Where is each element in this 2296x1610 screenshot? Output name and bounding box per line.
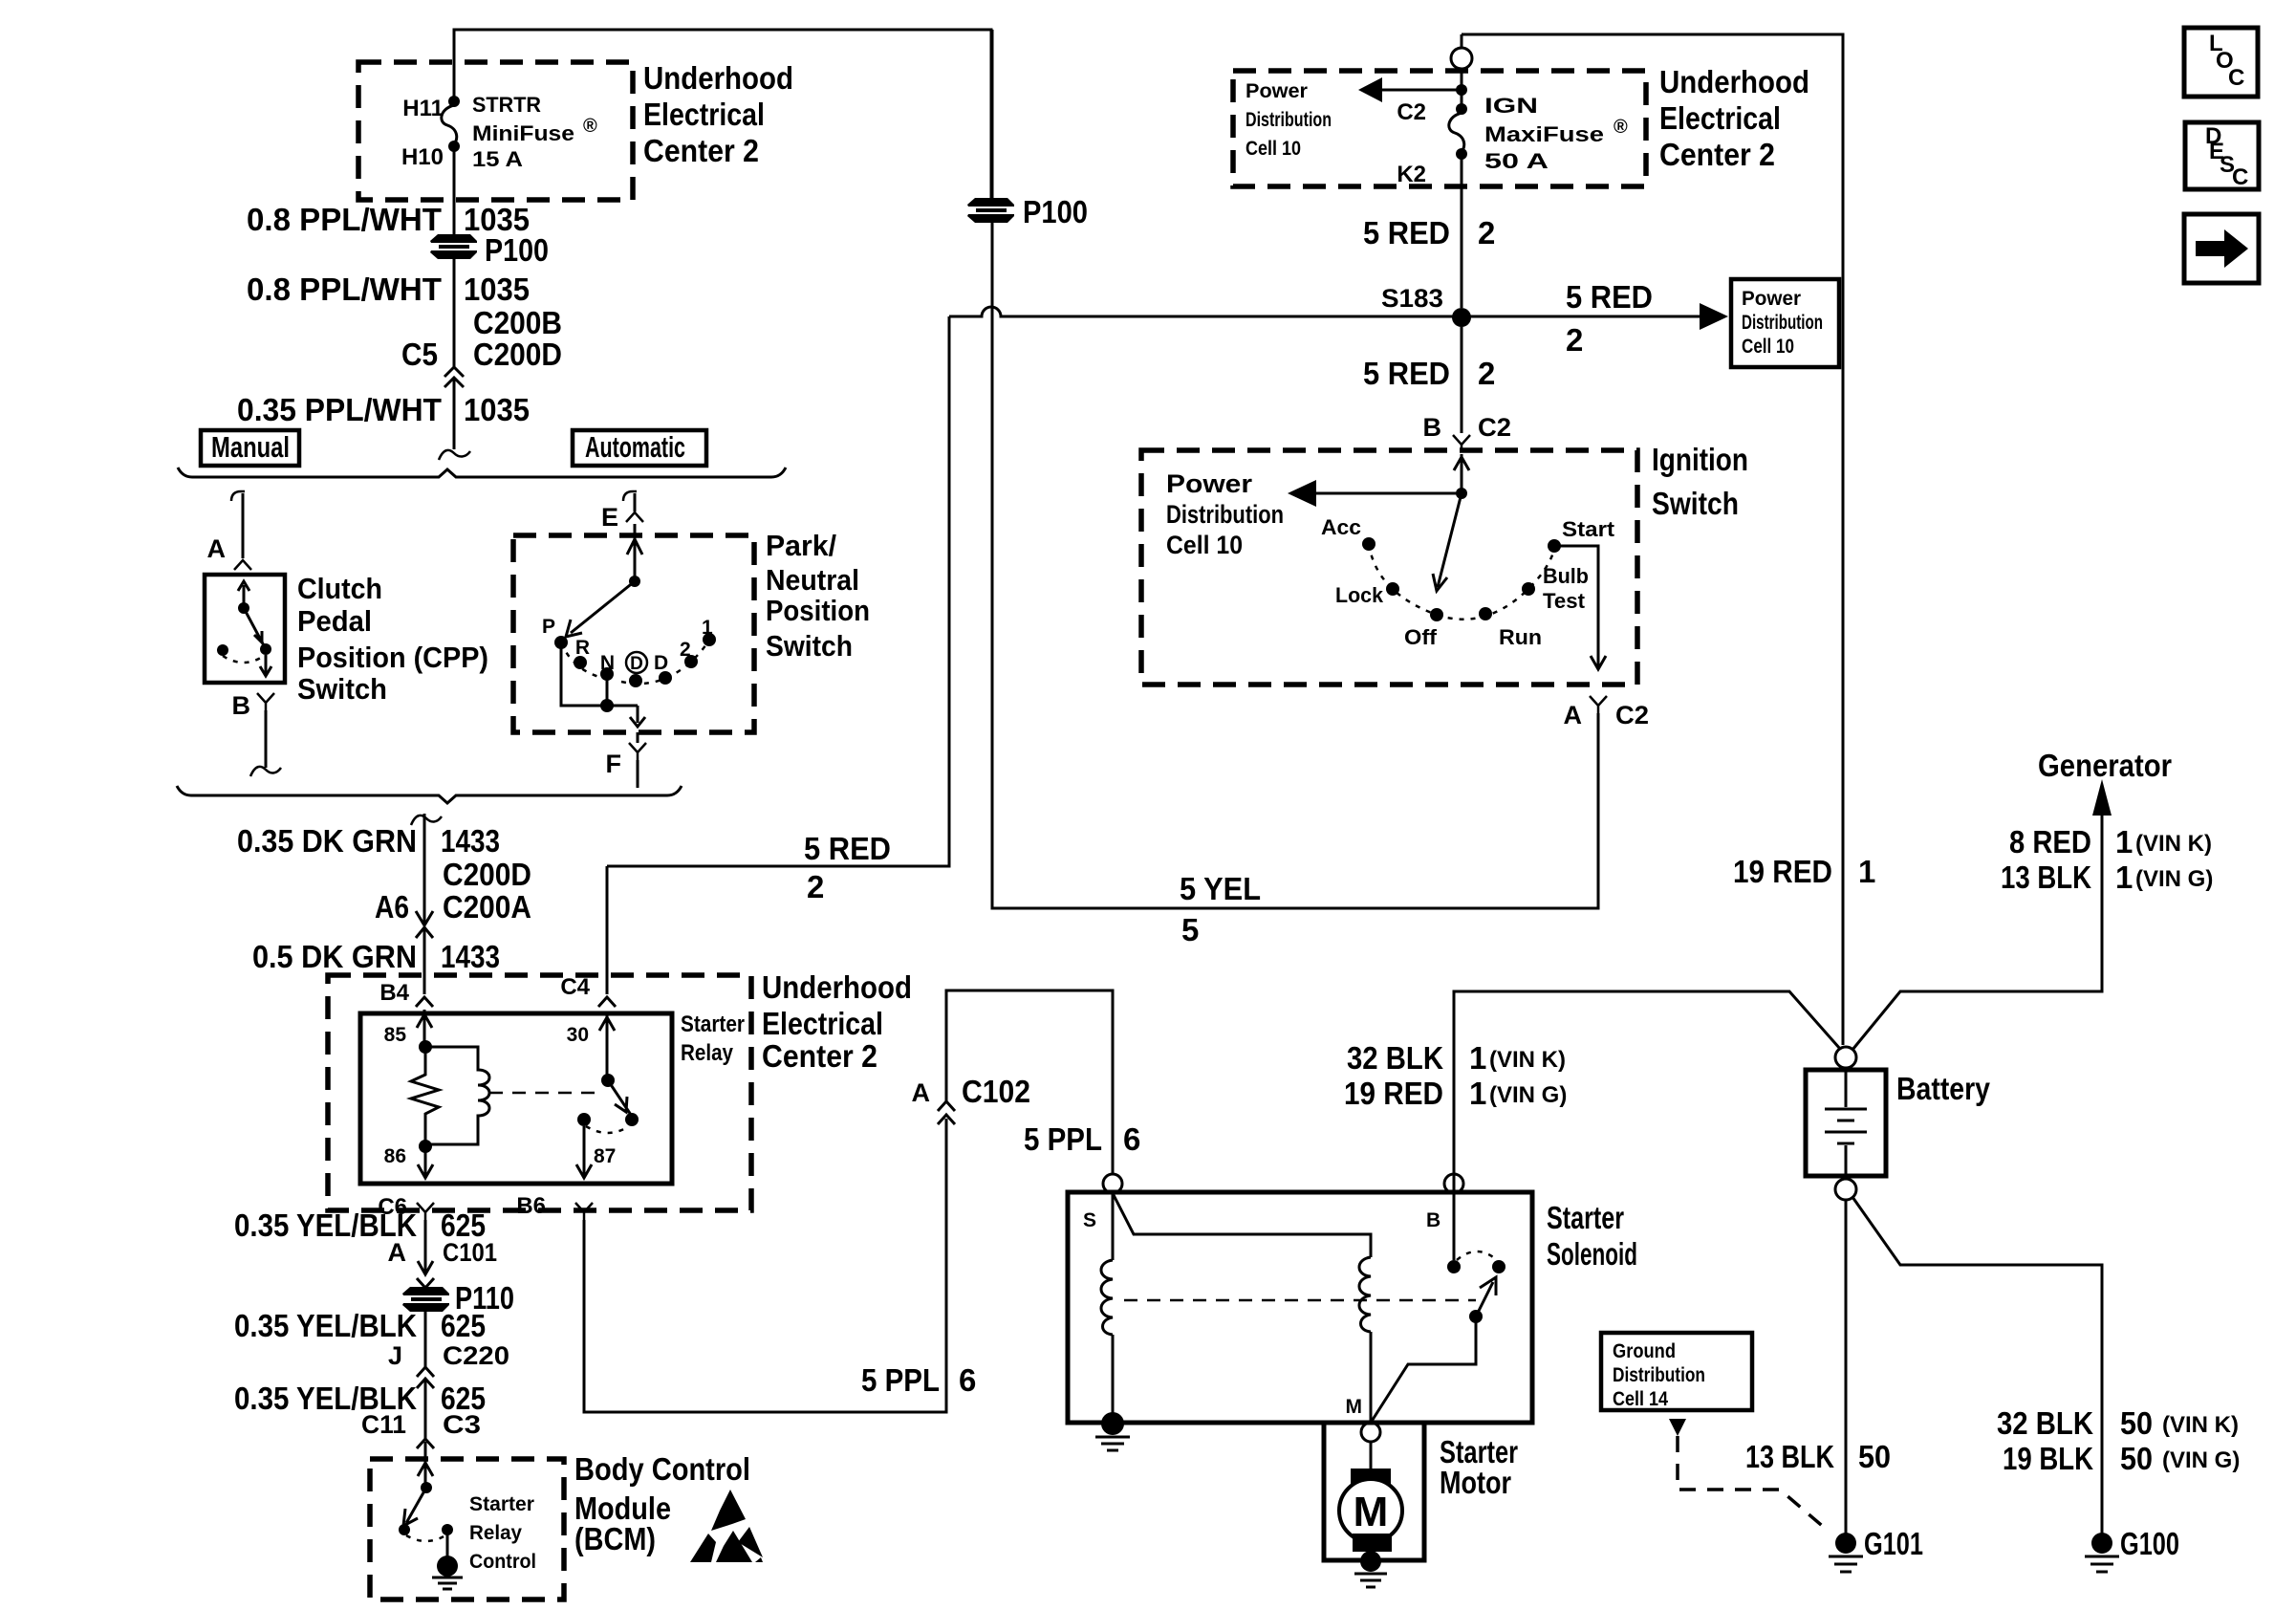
svg-text:Distribution: Distribution bbox=[1742, 312, 1823, 334]
BCM arm tip contact dot bbox=[399, 1524, 410, 1535]
relay mechanical dashed link bbox=[489, 1092, 601, 1095]
svg-text:0.35 PPL/WHT: 0.35 PPL/WHT bbox=[237, 392, 442, 427]
relay arm tip dot bbox=[625, 1113, 639, 1126]
svg-text:0.8 PPL/WHT: 0.8 PPL/WHT bbox=[247, 202, 442, 237]
wire M terminal to motor bbox=[1370, 1442, 1373, 1481]
wire B4 into relay coil bbox=[417, 1010, 432, 1045]
wire end curl above split brace bbox=[439, 450, 470, 460]
filled arrowhead pointing left bbox=[1358, 77, 1382, 102]
fuse STRTR MiniFuse 15A element bbox=[442, 105, 457, 145]
wire C6 down to C101 bbox=[417, 1220, 434, 1288]
connector caret at relay pin B4 bbox=[416, 997, 433, 1007]
wire solenoid S to pull-in winding bbox=[1113, 1193, 1371, 1257]
svg-text:32 BLK: 32 BLK bbox=[1347, 1040, 1443, 1076]
svg-text:Start: Start bbox=[1562, 517, 1615, 541]
svg-text:(VIN K): (VIN K) bbox=[1489, 1047, 1566, 1073]
svg-text:Underhood: Underhood bbox=[762, 969, 912, 1005]
solenoid hold-in coil winding bbox=[1101, 1260, 1113, 1335]
svg-text:50 A: 50 A bbox=[1484, 149, 1549, 173]
svg-text:Relay: Relay bbox=[681, 1040, 734, 1066]
wire 86 exit with down arrow bbox=[418, 1146, 433, 1178]
solenoid B terminal circle bbox=[1444, 1174, 1463, 1193]
motor ground ball bbox=[1360, 1551, 1381, 1572]
svg-text:(VIN G): (VIN G) bbox=[2162, 1447, 2240, 1473]
svg-text:Lock: Lock bbox=[1335, 583, 1384, 607]
svg-text:A6: A6 bbox=[375, 889, 409, 925]
solenoid fixed contact dot (B side) bbox=[1447, 1260, 1461, 1273]
splice open circle at top of IGN feed bbox=[1451, 48, 1472, 69]
svg-text:C5: C5 bbox=[401, 337, 438, 372]
CPP pivot dot bbox=[238, 602, 249, 614]
svg-text:F: F bbox=[606, 750, 622, 778]
ignition internal junction dot bbox=[1456, 488, 1467, 499]
pin H11 terminal dot bbox=[448, 96, 460, 107]
relay switch pivot dot (pin 30) bbox=[601, 1074, 615, 1087]
svg-text:1: 1 bbox=[702, 617, 713, 639]
wire relay B6 down, right, up to C102 bbox=[584, 1119, 946, 1412]
dashed wire ground distribution to G101 bbox=[1678, 1436, 1827, 1530]
wire PNP output exit with down arrow bbox=[630, 706, 645, 727]
arrowhead into power distribution box bbox=[1700, 303, 1728, 330]
in-line connector C3 symbol bbox=[417, 1439, 434, 1448]
ignition contact Lock dot bbox=[1386, 582, 1399, 596]
wire C3 into BCM bbox=[418, 1442, 433, 1488]
wire branch A top curl bbox=[231, 491, 245, 501]
svg-text:1433: 1433 bbox=[441, 823, 500, 859]
svg-text:86: 86 bbox=[384, 1145, 406, 1167]
svg-text:M: M bbox=[1354, 1489, 1389, 1535]
svg-text:C200D: C200D bbox=[443, 857, 531, 892]
wire S183 branch left and down to relay pin 30 bbox=[607, 316, 949, 866]
svg-text:H10: H10 bbox=[401, 144, 444, 170]
BCM ground symbol lines bbox=[432, 1577, 463, 1589]
svg-text:A: A bbox=[1564, 701, 1583, 729]
arrow to power distribution cell 10 (ignition internal) bbox=[1308, 492, 1462, 495]
svg-text:Distribution: Distribution bbox=[1166, 500, 1284, 529]
wire battery negative to ground G101 bbox=[1845, 1200, 1848, 1537]
svg-text:A: A bbox=[388, 1238, 407, 1267]
wire C200 connector down to branch end bbox=[453, 378, 456, 449]
svg-text:(VIN K): (VIN K) bbox=[2135, 831, 2212, 857]
wire C102 up and over to solenoid S terminal bbox=[946, 990, 1113, 1174]
battery box bbox=[1806, 1070, 1886, 1176]
BCM switch pivot dot bbox=[421, 1482, 432, 1493]
split brace between manual and automatic branches bbox=[178, 468, 786, 477]
svg-text:C220: C220 bbox=[443, 1341, 509, 1370]
PNP contact 1 dot bbox=[703, 633, 716, 646]
svg-text:C200D: C200D bbox=[473, 337, 562, 372]
svg-text:Distribution: Distribution bbox=[1245, 109, 1332, 131]
in-line connector C200D/C200A symbol with arrow bbox=[416, 910, 433, 938]
wire top right bus from splice circle to battery column bbox=[1462, 34, 1843, 1045]
icon box LOC bbox=[2184, 28, 2258, 97]
svg-text:®: ® bbox=[583, 116, 597, 137]
svg-text:Switch: Switch bbox=[297, 672, 387, 706]
svg-text:Starter: Starter bbox=[1547, 1200, 1624, 1235]
svg-text:Control: Control bbox=[469, 1551, 536, 1573]
relay switch movable arm bbox=[608, 1080, 631, 1115]
grommet P110 bbox=[402, 1287, 449, 1312]
solenoid contact travel dashed arc bbox=[1457, 1251, 1497, 1260]
CPP contact exit arrow down bbox=[260, 655, 271, 676]
ignition travel dashed arc bbox=[1369, 544, 1554, 620]
svg-text:K2: K2 bbox=[1397, 162, 1426, 187]
connector socket at PNP pin F bbox=[629, 743, 646, 760]
ground distribution cell 14 box bbox=[1601, 1333, 1752, 1410]
svg-text:Run: Run bbox=[1499, 625, 1542, 649]
svg-text:50: 50 bbox=[2120, 1441, 2153, 1476]
solenoid ground symbol lines bbox=[1095, 1437, 1130, 1450]
svg-text:B: B bbox=[1426, 1209, 1440, 1231]
svg-text:19 RED: 19 RED bbox=[1344, 1076, 1443, 1111]
ignition contact Acc dot bbox=[1362, 537, 1375, 551]
svg-text:30: 30 bbox=[567, 1024, 589, 1046]
wire BCM contact to internal ground bbox=[446, 1530, 449, 1558]
svg-text:13 BLK: 13 BLK bbox=[1745, 1439, 1834, 1474]
svg-text:Body Control: Body Control bbox=[574, 1451, 750, 1487]
svg-text:6: 6 bbox=[1123, 1121, 1140, 1157]
svg-text:Power: Power bbox=[1245, 80, 1308, 102]
ESD sensitive device symbol bbox=[690, 1490, 763, 1562]
svg-text:5 RED: 5 RED bbox=[1363, 215, 1450, 250]
svg-text:Pedal: Pedal bbox=[297, 604, 372, 638]
BCM contact travel dashed arc bbox=[406, 1535, 445, 1541]
svg-text:B: B bbox=[1423, 413, 1442, 442]
svg-text:5 YEL: 5 YEL bbox=[1180, 871, 1261, 906]
svg-text:(VIN K): (VIN K) bbox=[2162, 1412, 2239, 1438]
svg-text:B4: B4 bbox=[379, 980, 409, 1006]
svg-text:S: S bbox=[1083, 1209, 1096, 1231]
splice S183 junction dot bbox=[1452, 308, 1471, 327]
svg-text:32 BLK: 32 BLK bbox=[1997, 1405, 2093, 1441]
svg-text:Bulb: Bulb bbox=[1543, 564, 1589, 588]
solenoid mechanical dashed link bbox=[1124, 1299, 1476, 1302]
battery cell symbol bbox=[1825, 1068, 1867, 1176]
wire solenoid B to fixed contact bbox=[1453, 1193, 1456, 1260]
svg-text:1: 1 bbox=[1469, 1076, 1486, 1111]
svg-text:Cell 10: Cell 10 bbox=[1166, 531, 1243, 559]
svg-text:5 RED: 5 RED bbox=[1363, 356, 1450, 391]
relay contact travel dashed arc bbox=[586, 1126, 629, 1133]
solenoid second contact dot bbox=[1492, 1260, 1505, 1273]
CPP switch movable arm bbox=[244, 608, 266, 649]
clutch pedal position switch box bbox=[205, 575, 285, 683]
merge brace joining manual and automatic branches bbox=[177, 786, 682, 803]
wire generator feed from battery positive bbox=[1852, 805, 2102, 1050]
wire below merge brace with top curl bbox=[411, 816, 442, 825]
svg-text:Power: Power bbox=[1166, 469, 1253, 498]
PNP contact P dot bbox=[554, 636, 568, 649]
svg-text:STRTR: STRTR bbox=[472, 93, 541, 117]
BCM switch arm with arrowhead bbox=[403, 1488, 426, 1526]
ground G100 ball bbox=[2091, 1533, 2112, 1554]
underhood electrical center 2 dashed box (relay) bbox=[328, 975, 751, 1210]
svg-text:1: 1 bbox=[2115, 859, 2133, 895]
wire CPP pin B down to merge brace bbox=[265, 710, 268, 768]
PNP contact 2 dot bbox=[684, 655, 698, 668]
svg-text:2: 2 bbox=[1478, 356, 1495, 391]
svg-text:C11: C11 bbox=[361, 1410, 406, 1439]
starter relay solid box bbox=[360, 1013, 672, 1184]
PNP entry arrow up bbox=[627, 539, 642, 555]
solenoid arm pivot dot bbox=[1469, 1310, 1483, 1323]
wire brace to PNP pin E bbox=[634, 493, 637, 511]
BCM fixed contact dot bbox=[442, 1524, 453, 1535]
svg-text:Ignition: Ignition bbox=[1652, 442, 1748, 477]
svg-text:C2: C2 bbox=[1397, 99, 1426, 125]
PNP output junction dot bbox=[600, 699, 614, 712]
PNP pivot dot bbox=[629, 576, 640, 587]
wire PNP P contact to output bbox=[561, 646, 638, 706]
connector socket at relay pin C6 bbox=[417, 1203, 434, 1220]
IGN fuse K2 terminal dot bbox=[1456, 148, 1467, 160]
wire IGN fuse K2 down to S183 bbox=[1461, 154, 1463, 308]
svg-text:8 RED: 8 RED bbox=[2009, 824, 2091, 859]
svg-text:Electrical: Electrical bbox=[643, 97, 765, 132]
svg-text:625: 625 bbox=[441, 1308, 486, 1343]
arrow to power distribution cell 10 (left) bbox=[1376, 89, 1462, 92]
svg-text:(VIN G): (VIN G) bbox=[1489, 1082, 1567, 1108]
in-line connector C200B/C200D symbol bbox=[444, 367, 464, 387]
svg-text:Underhood: Underhood bbox=[643, 60, 793, 96]
wire solenoid B up and over to battery positive bbox=[1454, 991, 1840, 1193]
svg-text:Position (CPP): Position (CPP) bbox=[297, 641, 488, 674]
svg-text:P: P bbox=[542, 616, 555, 638]
svg-text:19 BLK: 19 BLK bbox=[2003, 1441, 2093, 1476]
svg-text:C102: C102 bbox=[962, 1074, 1030, 1109]
body control module dashed box bbox=[370, 1459, 564, 1599]
wire C4 from above into relay pin 30 bbox=[606, 866, 609, 994]
solenoid internal ground ball bbox=[1101, 1412, 1124, 1435]
svg-text:5 PPL: 5 PPL bbox=[861, 1362, 940, 1398]
svg-text:(BCM): (BCM) bbox=[574, 1521, 656, 1556]
Manual option box bbox=[201, 430, 299, 466]
svg-text:5 RED: 5 RED bbox=[1566, 279, 1653, 315]
wire circle to C2 bbox=[1461, 69, 1463, 109]
wire merge to C200D connector bbox=[423, 814, 426, 910]
svg-text:2: 2 bbox=[807, 869, 824, 904]
icon box DESC bbox=[2185, 122, 2259, 190]
PNP travel dashed arc bbox=[561, 640, 709, 684]
relay coil upper junction dot bbox=[419, 1040, 432, 1054]
wire solenoid arm to M terminal bbox=[1371, 1316, 1476, 1423]
connector caret at relay pin C4 bbox=[598, 997, 616, 1007]
battery negative terminal circle bbox=[1835, 1179, 1856, 1200]
solenoid movable arm with arrowhead bbox=[1476, 1277, 1496, 1316]
svg-text:A: A bbox=[912, 1078, 931, 1107]
svg-text:Distribution: Distribution bbox=[1613, 1364, 1705, 1386]
IGN fuse C2 terminal dot bbox=[1456, 103, 1467, 115]
PNP wiper arm with arrowhead bbox=[566, 581, 635, 637]
in-line connector C220 symbol bbox=[417, 1367, 434, 1388]
PNP contact N dot bbox=[600, 667, 614, 681]
svg-text:Position: Position bbox=[766, 594, 870, 627]
wire PNP N contact to output bbox=[606, 674, 609, 706]
svg-text:A: A bbox=[207, 534, 227, 563]
svg-text:0.8 PPL/WHT: 0.8 PPL/WHT bbox=[247, 272, 442, 307]
connector socket at CPP pin B bbox=[257, 693, 274, 710]
svg-text:Underhood: Underhood bbox=[1659, 64, 1809, 99]
PNP circled D contact bbox=[626, 652, 647, 687]
svg-text:2: 2 bbox=[680, 639, 691, 661]
starter motor box bbox=[1324, 1423, 1424, 1560]
svg-text:Automatic: Automatic bbox=[585, 430, 685, 464]
wire S183 horizontal with hop over 5 YEL wire bbox=[949, 307, 1462, 316]
svg-text:1035: 1035 bbox=[464, 272, 530, 307]
svg-text:C3: C3 bbox=[443, 1410, 481, 1439]
svg-text:1: 1 bbox=[1469, 1040, 1486, 1076]
motor top brush block bbox=[1351, 1469, 1391, 1487]
top middle dashed box underhood electrical center 2 bbox=[1233, 71, 1646, 186]
svg-text:5: 5 bbox=[1181, 912, 1199, 947]
icon box right arrow bbox=[2184, 214, 2259, 283]
svg-text:E: E bbox=[601, 503, 618, 532]
in-line connector C102 symbol bbox=[938, 1101, 955, 1124]
svg-text:2: 2 bbox=[1566, 322, 1583, 358]
svg-text:Center 2: Center 2 bbox=[762, 1038, 877, 1074]
svg-text:D: D bbox=[654, 652, 668, 674]
PNP contact R dot bbox=[574, 656, 587, 669]
grommet P100 (right) bbox=[967, 198, 1014, 223]
svg-text:(VIN G): (VIN G) bbox=[2135, 866, 2213, 892]
svg-text:®: ® bbox=[1614, 117, 1628, 138]
svg-text:Switch: Switch bbox=[1652, 486, 1739, 521]
wire pin 30 into relay switch bbox=[599, 1012, 615, 1080]
svg-text:M: M bbox=[1346, 1396, 1363, 1418]
motor ground symbol lines bbox=[1354, 1574, 1387, 1587]
wire PNP pin F down to merge brace bbox=[637, 732, 639, 788]
fuse IGN MaxiFuse 50A element bbox=[1449, 113, 1464, 153]
svg-text:C2: C2 bbox=[1615, 701, 1649, 729]
svg-text:Cell 10: Cell 10 bbox=[1245, 138, 1301, 160]
relay fixed contact dot (87) bbox=[577, 1113, 591, 1126]
svg-text:R: R bbox=[575, 637, 590, 659]
CPP travel dashed arc bbox=[223, 656, 264, 663]
svg-text:C4: C4 bbox=[560, 974, 590, 1000]
svg-text:C200B: C200B bbox=[473, 305, 562, 340]
ignition switch dashed box bbox=[1141, 450, 1637, 685]
svg-text:Cell 10: Cell 10 bbox=[1742, 336, 1794, 358]
svg-text:Manual: Manual bbox=[211, 430, 290, 464]
svg-text:0.35 YEL/BLK: 0.35 YEL/BLK bbox=[234, 1308, 417, 1343]
ignition contact Start dot bbox=[1548, 539, 1561, 553]
svg-text:50: 50 bbox=[2120, 1405, 2153, 1441]
svg-text:85: 85 bbox=[384, 1024, 407, 1046]
PNP contact D dot bbox=[659, 671, 672, 685]
svg-text:C: C bbox=[2228, 65, 2244, 91]
svg-text:Starter: Starter bbox=[469, 1493, 534, 1515]
wire H10 to P100 bbox=[453, 149, 456, 235]
svg-text:C200A: C200A bbox=[443, 889, 531, 925]
svg-text:2: 2 bbox=[1478, 215, 1495, 250]
svg-text:G101: G101 bbox=[1864, 1526, 1923, 1561]
relay resistor zigzag bbox=[411, 1047, 439, 1146]
svg-text:Ground: Ground bbox=[1613, 1340, 1676, 1362]
wire ignition A down/left/up through P100 to STRTR fuse (5 YEL) bbox=[992, 30, 1598, 908]
wire C220 to C3 bbox=[424, 1379, 427, 1439]
ground G101 symbol lines bbox=[1829, 1556, 1863, 1572]
svg-text:5 PPL: 5 PPL bbox=[1024, 1121, 1102, 1157]
svg-text:Center 2: Center 2 bbox=[643, 133, 759, 168]
wire hold-in coil to ground bbox=[1112, 1335, 1115, 1417]
wire socket E into PNP box bbox=[634, 524, 637, 581]
svg-text:Solenoid: Solenoid bbox=[1547, 1236, 1637, 1272]
svg-text:Cell 14: Cell 14 bbox=[1613, 1388, 1668, 1410]
svg-text:1035: 1035 bbox=[464, 392, 530, 427]
svg-text:H11: H11 bbox=[402, 96, 444, 121]
wire Start contact to ignition pin A bbox=[1554, 546, 1606, 669]
svg-text:C2: C2 bbox=[1478, 413, 1511, 442]
svg-text:Off: Off bbox=[1404, 625, 1438, 649]
svg-text:Electrical: Electrical bbox=[762, 1006, 883, 1041]
solenoid M terminal circle bbox=[1361, 1423, 1380, 1442]
svg-text:Clutch: Clutch bbox=[297, 572, 382, 605]
battery positive terminal circle bbox=[1835, 1047, 1856, 1068]
ignition wiper arm with arrowhead bbox=[1433, 493, 1462, 591]
solenoid pull-in coil winding bbox=[1359, 1257, 1371, 1332]
underhood electrical center 2 dashed box (top left) bbox=[358, 62, 633, 200]
svg-text:5 RED: 5 RED bbox=[804, 831, 891, 866]
svg-text:19 RED: 19 RED bbox=[1733, 854, 1832, 889]
CPP fixed contact dot bbox=[217, 644, 228, 656]
svg-text:MiniFuse: MiniFuse bbox=[472, 121, 574, 145]
svg-text:C: C bbox=[2232, 164, 2248, 190]
wire S183 down to ignition switch B bbox=[1461, 327, 1463, 433]
wire P100 to C200 connector bbox=[453, 259, 456, 367]
connector socket at PNP pin E bbox=[626, 507, 643, 522]
svg-text:Starter: Starter bbox=[681, 1012, 745, 1037]
solenoid S terminal circle bbox=[1103, 1174, 1122, 1193]
svg-text:6: 6 bbox=[959, 1362, 976, 1398]
connector socket at ignition pin B bbox=[1453, 435, 1470, 450]
svg-text:50: 50 bbox=[1858, 1439, 1891, 1474]
wire C200 to UEC2 relay pin B4 bbox=[423, 929, 426, 994]
grommet P100 (left) bbox=[430, 234, 477, 259]
svg-text:13 BLK: 13 BLK bbox=[2001, 859, 2091, 895]
CPP moving contact dot bbox=[260, 643, 271, 655]
svg-text:1433: 1433 bbox=[441, 939, 500, 974]
svg-text:S183: S183 bbox=[1381, 284, 1443, 313]
wire S183 to power distribution (right arrow) bbox=[1462, 315, 1707, 318]
svg-text:0.5 DK GRN: 0.5 DK GRN bbox=[252, 939, 417, 974]
relay coil winding bbox=[425, 1047, 489, 1144]
wire brace to CPP pin A bbox=[242, 493, 245, 558]
svg-text:MaxiFuse: MaxiFuse bbox=[1484, 122, 1604, 146]
svg-text:Relay: Relay bbox=[469, 1522, 522, 1544]
svg-text:Power: Power bbox=[1742, 288, 1801, 310]
svg-text:1: 1 bbox=[1858, 854, 1875, 889]
svg-text:Neutral: Neutral bbox=[766, 563, 859, 597]
arrowhead to generator bbox=[2092, 779, 2112, 816]
connector socket at ignition pin A bbox=[1590, 696, 1607, 713]
wire ignition B entry with up arrow bbox=[1454, 454, 1469, 493]
motor bottom brush block bbox=[1353, 1534, 1392, 1552]
relay coil lower junction dot bbox=[419, 1140, 432, 1153]
ignition contact Off dot bbox=[1430, 608, 1443, 621]
wire 87 exit with down arrow bbox=[576, 1126, 592, 1178]
ground G100 symbol lines bbox=[2085, 1556, 2119, 1572]
svg-text:P100: P100 bbox=[1023, 194, 1088, 229]
svg-text:1: 1 bbox=[2115, 824, 2133, 859]
wire end curl B branch bbox=[250, 767, 281, 776]
svg-text:Battery: Battery bbox=[1896, 1071, 1991, 1106]
svg-text:J: J bbox=[388, 1341, 402, 1370]
ground G101 ball bbox=[1835, 1533, 1856, 1554]
svg-text:B6: B6 bbox=[516, 1193, 546, 1219]
svg-text:87: 87 bbox=[594, 1145, 616, 1167]
svg-text:IGN: IGN bbox=[1484, 94, 1538, 118]
svg-text:Acc: Acc bbox=[1321, 515, 1361, 539]
